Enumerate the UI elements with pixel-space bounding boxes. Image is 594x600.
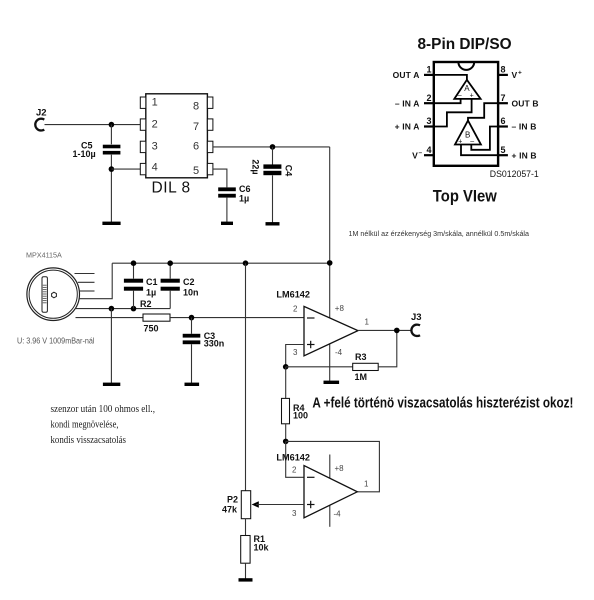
pinout stubs right bbox=[498, 75, 508, 155]
internal wire A output to pin1 bbox=[434, 75, 467, 80]
wire ground drop bbox=[110, 309, 112, 383]
svg-text:-4: -4 bbox=[335, 348, 343, 357]
pin labels left bbox=[393, 70, 423, 160]
sensor MPX4115A bbox=[26, 250, 80, 320]
wire sensor ground line bbox=[76, 308, 170, 310]
svg-text:6: 6 bbox=[501, 116, 506, 126]
svg-text:+: + bbox=[470, 93, 474, 100]
svg-text:J2: J2 bbox=[36, 108, 47, 119]
svg-text:R2: R2 bbox=[140, 299, 152, 309]
node junction J2/C5 bbox=[109, 122, 115, 128]
node sensor ground junction bbox=[109, 306, 115, 312]
svg-text:3: 3 bbox=[152, 140, 158, 152]
svg-text:3: 3 bbox=[293, 348, 298, 357]
svg-text:3: 3 bbox=[292, 509, 297, 518]
svg-text:8-Pin DIP/SO: 8-Pin DIP/SO bbox=[418, 36, 512, 53]
text sensor notes (serif block) bbox=[51, 404, 156, 446]
wire J2 to DIL8 pin 2 bbox=[45, 124, 141, 126]
internal wire B -in to pin6 bbox=[471, 127, 498, 150]
svg-text:1: 1 bbox=[365, 318, 370, 327]
svg-text:C4: C4 bbox=[283, 165, 293, 177]
svg-text:1: 1 bbox=[152, 96, 158, 108]
svg-text:– IN B: – IN B bbox=[512, 122, 537, 132]
svg-text:2: 2 bbox=[152, 118, 158, 130]
svg-text:+: + bbox=[458, 138, 462, 145]
wire pin5 to C6 bbox=[213, 169, 227, 187]
svg-text:8: 8 bbox=[501, 65, 506, 75]
svg-text:–: – bbox=[470, 138, 474, 145]
pin labels right bbox=[512, 70, 539, 161]
resistor R3 bbox=[353, 352, 379, 382]
svg-text:–: – bbox=[419, 150, 423, 157]
wire sensor output to R2 bbox=[76, 317, 144, 319]
wire P2 to R1 bbox=[245, 519, 247, 536]
capacitor C5 bbox=[73, 125, 121, 222]
pinout stubs left bbox=[424, 75, 434, 155]
svg-text:47k: 47k bbox=[222, 505, 238, 515]
svg-text:A +felé történö viszacsatolás: A +felé történö viszacsatolás hiszterézi… bbox=[312, 395, 573, 412]
svg-text:2: 2 bbox=[292, 466, 297, 475]
capacitor C3 bbox=[183, 318, 225, 383]
capacitor C2 bbox=[161, 263, 199, 308]
svg-text:C1: C1 bbox=[146, 277, 158, 287]
IC pinout body bbox=[434, 62, 498, 166]
svg-text:750: 750 bbox=[144, 324, 159, 334]
svg-text:7: 7 bbox=[193, 121, 199, 133]
svg-text:1µ: 1µ bbox=[146, 288, 156, 298]
capacitor C6 bbox=[218, 184, 250, 222]
resistor R2 bbox=[140, 299, 170, 334]
op-amp A symbol bbox=[454, 80, 480, 100]
ground (below C5) bbox=[102, 222, 120, 225]
node C1 ground junction bbox=[131, 306, 137, 312]
svg-text:6: 6 bbox=[193, 141, 199, 153]
wire power drop from pin6 line to rail bbox=[329, 147, 331, 263]
svg-text:+: + bbox=[518, 70, 522, 77]
wire R3 left lead bbox=[286, 366, 353, 368]
svg-text:MPX4115A: MPX4115A bbox=[26, 250, 62, 259]
node C1 rail junction bbox=[131, 260, 137, 266]
svg-text:+8: +8 bbox=[335, 304, 345, 313]
svg-text:2: 2 bbox=[293, 304, 298, 313]
node junction C4 tap bbox=[270, 144, 276, 150]
node C2 rail junction bbox=[167, 260, 173, 266]
internal wire B +in to pin5 bbox=[461, 145, 498, 156]
svg-text:U: 3.96 V 1009mBar-nál: U: 3.96 V 1009mBar-nál bbox=[17, 336, 95, 346]
svg-text:LM6142: LM6142 bbox=[276, 290, 310, 301]
wire P2 wiper to op-amp2 +input bbox=[256, 504, 304, 506]
wire R2 to op-amp pin2 bbox=[170, 317, 304, 319]
node feedback junction bbox=[283, 439, 289, 445]
wire pin6 to power rail corner bbox=[213, 146, 330, 148]
internal wire B output to pin7 bbox=[468, 103, 498, 120]
svg-text:330n: 330n bbox=[204, 339, 225, 349]
wire op-amp1 power rail to ground bbox=[329, 263, 331, 381]
wire op-amp1 output to J3 bbox=[358, 329, 412, 331]
svg-text:10k: 10k bbox=[254, 543, 270, 553]
wire op-amp2 -input bbox=[286, 441, 304, 477]
connector J3 bbox=[411, 312, 422, 336]
svg-text:1M: 1M bbox=[355, 372, 368, 382]
wire op-amp1 +input branch bbox=[286, 345, 304, 367]
ground (below C3) bbox=[185, 383, 200, 386]
ground (sensor) bbox=[103, 383, 120, 386]
ground (below C6) bbox=[221, 222, 233, 225]
ground (op-amp1 power) bbox=[324, 381, 340, 384]
node rail/P2 branch junction bbox=[243, 260, 249, 266]
svg-text:7: 7 bbox=[501, 93, 506, 103]
svg-text:5: 5 bbox=[501, 145, 506, 155]
op-amp U2B LM6142 bbox=[276, 453, 369, 519]
svg-text:A: A bbox=[464, 84, 470, 93]
connector J2 bbox=[35, 108, 46, 131]
svg-text:+ IN B: + IN B bbox=[512, 150, 537, 160]
svg-text:1: 1 bbox=[427, 65, 432, 75]
svg-text:szenzor után 100 ohmos ell.,: szenzor után 100 ohmos ell., bbox=[51, 404, 156, 415]
sensor stub pins bbox=[75, 274, 95, 292]
internal wire A +in to pin3 bbox=[434, 99, 472, 127]
svg-text:1µ: 1µ bbox=[239, 194, 249, 204]
node junction C5/pin4 bbox=[109, 166, 115, 172]
wire op-amp2 feedback loop bbox=[286, 441, 380, 491]
svg-text:kondis visszacsatolás: kondis visszacsatolás bbox=[51, 435, 127, 446]
resistor R1 bbox=[241, 534, 270, 579]
supply rail bbox=[112, 262, 330, 264]
svg-text:OUT A: OUT A bbox=[393, 70, 420, 80]
svg-text:V: V bbox=[412, 150, 418, 160]
internal wire A -in to pin2 bbox=[434, 99, 461, 103]
svg-text:10n: 10n bbox=[183, 288, 199, 298]
svg-text:– IN A: – IN A bbox=[395, 98, 420, 108]
svg-text:1M nélkül az érzékenység 3m/sk: 1M nélkül az érzékenység 3m/skála, annél… bbox=[349, 229, 530, 238]
op-amp U2A LM6142 bbox=[276, 290, 369, 358]
resistor R4 bbox=[282, 367, 309, 442]
pinout pin numbers bbox=[427, 65, 506, 155]
svg-text:OUT B: OUT B bbox=[512, 98, 539, 108]
svg-text:V: V bbox=[512, 70, 518, 80]
ground (below R1) bbox=[239, 578, 253, 581]
svg-text:8: 8 bbox=[193, 100, 199, 112]
svg-text:2: 2 bbox=[427, 93, 432, 103]
svg-text:+ IN A: + IN A bbox=[395, 122, 420, 132]
svg-text:1-10µ: 1-10µ bbox=[73, 149, 96, 159]
pin numbers 1-4 left bbox=[152, 96, 158, 173]
svg-text:+8: +8 bbox=[335, 464, 345, 473]
wire sensor supply to rail bbox=[79, 263, 112, 299]
node C3 tap junction bbox=[189, 315, 195, 321]
potentiometer P2 bbox=[222, 491, 259, 519]
svg-text:kondi megnövelése,: kondi megnövelése, bbox=[51, 420, 119, 431]
svg-text:3: 3 bbox=[427, 116, 432, 126]
svg-text:22µ: 22µ bbox=[251, 159, 261, 174]
svg-text:LM6142: LM6142 bbox=[276, 453, 310, 464]
svg-text:100: 100 bbox=[293, 411, 308, 421]
wire op-amp2 power stub bbox=[329, 455, 331, 527]
wire R3 right lead up to output bbox=[378, 330, 397, 366]
svg-text:R3: R3 bbox=[355, 352, 367, 362]
svg-text:P2: P2 bbox=[227, 495, 238, 505]
svg-text:-4: -4 bbox=[334, 510, 342, 519]
svg-text:4: 4 bbox=[152, 162, 158, 174]
capacitor C1 bbox=[124, 263, 158, 308]
svg-text:1: 1 bbox=[364, 480, 369, 489]
svg-text:C2: C2 bbox=[183, 277, 195, 287]
svg-text:4: 4 bbox=[427, 145, 432, 155]
node output junction bbox=[394, 328, 400, 334]
svg-text:C6: C6 bbox=[239, 184, 251, 194]
svg-text:DS012057-1: DS012057-1 bbox=[490, 169, 539, 180]
pin numbers 8-5 right bbox=[193, 100, 199, 177]
svg-text:Top VIew: Top VIew bbox=[433, 188, 497, 206]
ground (below C4) bbox=[266, 222, 280, 225]
capacitor C4 bbox=[251, 147, 294, 223]
wire rail to P2 bbox=[245, 263, 247, 491]
svg-text:J3: J3 bbox=[411, 312, 422, 323]
IC U1 DIL 8 package body with pins bbox=[140, 94, 213, 178]
op-amp B symbol bbox=[455, 121, 481, 146]
svg-text:DIL 8: DIL 8 bbox=[152, 180, 191, 197]
node rail/power junction bbox=[327, 260, 333, 266]
wire C5 to DIL8 pin 4 bbox=[111, 168, 140, 170]
svg-text:5: 5 bbox=[193, 165, 199, 177]
svg-text:–: – bbox=[458, 92, 462, 99]
node +input/R4/R3 junction bbox=[283, 364, 289, 370]
